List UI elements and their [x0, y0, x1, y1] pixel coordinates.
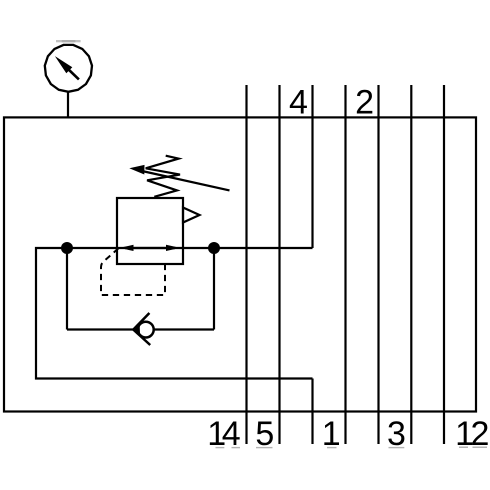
svg-text:2: 2 [355, 83, 374, 121]
svg-text:4: 4 [289, 83, 308, 121]
